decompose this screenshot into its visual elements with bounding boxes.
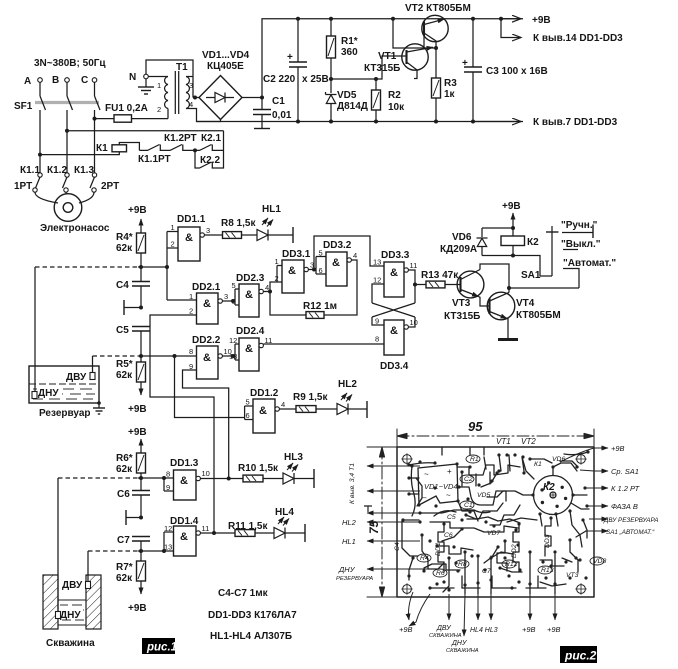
svg-text:VT3: VT3 [452, 298, 471, 309]
wire: bridge + output to C1 node [242, 97, 262, 99]
svg-text:х 25В: х 25В [302, 74, 329, 85]
board output arrows right side [560, 448, 608, 531]
svg-text:ДВУ: ДВУ [436, 625, 452, 632]
svg-text:13: 13 [164, 543, 172, 552]
svg-text:R2: R2 [388, 90, 401, 101]
terminal stub between C6/C7 [126, 510, 143, 525]
svg-text:&: & [245, 289, 253, 301]
figure 1 tag [142, 638, 177, 654]
svg-text:К 1.2 РТ: К 1.2 РТ [611, 484, 641, 493]
board outline [397, 447, 594, 597]
svg-text:СКВАЖИНА: СКВАЖИНА [446, 648, 479, 654]
svg-text:ДНУ: ДНУ [38, 388, 59, 399]
svg-text:DD1.2: DD1.2 [250, 388, 279, 399]
svg-text:С3 100 х 16В: С3 100 х 16В [486, 66, 548, 77]
svg-text:ДВУ РЕЗЕРВУАРА: ДВУ РЕЗЕРВУАРА [603, 517, 658, 524]
wire: fuse to T1 primary pin2 [167, 109, 169, 119]
wire DD2.4 out to DD3.4 pin8 [263, 343, 384, 345]
wire: N up over to bridge AC input [146, 60, 193, 98]
svg-text:0,01: 0,01 [272, 110, 292, 121]
wire node to DD1.2 inputs [175, 356, 245, 418]
wires from contacts to motor [35, 192, 58, 203]
reservoir tank [29, 366, 99, 403]
svg-text:С: С [81, 75, 88, 86]
node R6/C6 (DNU well net) [139, 476, 143, 480]
chassis stub below C1 [261, 122, 263, 129]
svg-text:R5*: R5* [116, 359, 133, 370]
svg-text:VD6: VD6 [452, 232, 472, 243]
svg-text:КТ315Б: КТ315Б [364, 63, 400, 74]
svg-text:А: А [24, 76, 31, 87]
svg-text:R12 1м: R12 1м [303, 301, 337, 312]
svg-text:КТ315Б: КТ315Б [444, 311, 480, 322]
svg-text:Скважина: Скважина [46, 638, 95, 649]
svg-text:VD5: VD5 [477, 492, 490, 499]
motor (electric pump) [54, 194, 82, 222]
DD2.4 input bracket from DD2.2 out [222, 344, 239, 360]
svg-text:ФАЗА В: ФАЗА В [611, 502, 638, 511]
svg-text:DD3.4: DD3.4 [380, 361, 409, 372]
svg-text:VT1: VT1 [378, 51, 397, 62]
svg-text:К2: К2 [527, 237, 539, 248]
dimension 75 [367, 447, 397, 597]
svg-text:ДНУ: ДНУ [60, 610, 81, 621]
svg-text:HL4: HL4 [275, 507, 294, 518]
mounting hole bottom-left [403, 585, 412, 594]
svg-text:4: 4 [281, 400, 285, 409]
svg-text:DD2: DD2 [511, 544, 518, 558]
svg-text:12: 12 [373, 276, 381, 285]
svg-text:R9 1,5к: R9 1,5к [293, 392, 328, 403]
relay K2 on board [534, 476, 573, 515]
svg-text:"Автомат.": "Автомат." [563, 258, 616, 269]
reservoir DNU electrode [32, 267, 37, 399]
svg-text:&: & [390, 267, 398, 279]
svg-text:&: & [203, 352, 211, 364]
svg-text:К выв.7 DD1-DD3: К выв.7 DD1-DD3 [533, 117, 618, 128]
svg-text:11: 11 [410, 261, 418, 270]
svg-text:HL3: HL3 [284, 452, 303, 463]
svg-text:SF1: SF1 [14, 101, 33, 112]
svg-text:10: 10 [202, 469, 210, 478]
core lines [174, 71, 176, 114]
wire DD2.2 pin9 to DD1.3 output [183, 370, 229, 479]
svg-text:1: 1 [171, 223, 175, 232]
svg-text:"Выкл.": "Выкл." [561, 239, 601, 250]
svg-text:C5: C5 [447, 514, 456, 521]
svg-text:~: ~ [424, 470, 429, 479]
reservoir DVU electrode [90, 356, 95, 380]
svg-text:РЕЗЕРВУАРА: РЕЗЕРВУАРА [336, 576, 373, 582]
svg-text:9: 9 [375, 317, 379, 326]
DD3.1 input bracket from DD2.3 out node [263, 266, 282, 292]
svg-text:2РТ: 2РТ [101, 181, 119, 192]
svg-text:DD2.1: DD2.1 [192, 282, 221, 293]
svg-text:К1: К1 [96, 143, 108, 154]
svg-text:–: – [422, 493, 427, 502]
wire: T1 pin3 stub [186, 76, 193, 78]
svg-text:8: 8 [375, 335, 379, 344]
svg-text:VT2: VT2 [521, 437, 536, 446]
wire VD6/K2 top [482, 227, 513, 229]
svg-text:R4: R4 [420, 555, 429, 562]
svg-text:+: + [447, 467, 452, 476]
svg-text:5: 5 [246, 398, 250, 407]
svg-text:R6: R6 [436, 570, 445, 577]
svg-text:SA1: SA1 [521, 270, 541, 281]
dashed wire to well DVU [88, 550, 138, 552]
svg-text:Электронасос: Электронасос [40, 223, 110, 234]
svg-text:рис.2: рис.2 [564, 649, 597, 663]
mounting hole bottom-right [577, 585, 586, 594]
svg-text:С1: С1 [272, 96, 285, 107]
svg-text:VD6: VD6 [552, 456, 565, 463]
svg-text:R10 1,5к: R10 1,5к [238, 463, 279, 474]
DD1.1 input bracket [167, 232, 197, 301]
dimension 95 [397, 429, 594, 447]
node R1/VD5 [329, 77, 333, 81]
svg-text:К1.2РТ: К1.2РТ [164, 133, 197, 144]
svg-text:10: 10 [410, 318, 418, 327]
svg-text:КД209А: КД209А [440, 244, 477, 255]
svg-text:10к: 10к [388, 102, 405, 113]
svg-text:R11 1,5к: R11 1,5к [228, 521, 268, 532]
svg-text:DD3.3: DD3.3 [381, 250, 410, 261]
svg-text:&: & [332, 257, 340, 269]
svg-text:К2: К2 [543, 482, 555, 493]
svg-text:C6: C6 [444, 532, 453, 539]
DD1.3 input bracket [164, 478, 174, 491]
svg-text:&: & [203, 298, 211, 310]
svg-text:HL1-HL4 АЛ307Б: HL1-HL4 АЛ307Б [210, 631, 292, 642]
svg-text:&: & [185, 232, 193, 244]
svg-text:62к: 62к [116, 243, 133, 254]
svg-text:К1.3: К1.3 [74, 165, 94, 176]
svg-text:13: 13 [373, 258, 381, 267]
svg-text:4: 4 [189, 100, 193, 109]
wire VD6/K2 bottom to SA1 pole [482, 256, 552, 277]
svg-text:1РТ: 1РТ [14, 181, 32, 192]
svg-text:8: 8 [189, 347, 193, 356]
svg-text:C7: C7 [482, 568, 491, 575]
wire: control line from phase B [67, 130, 224, 132]
node contacts to K2.1/K2.2 [193, 148, 197, 152]
svg-text:+9В: +9В [502, 201, 521, 212]
svg-text:VT1: VT1 [496, 437, 511, 446]
svg-text:&: & [259, 405, 267, 417]
svg-text:С4-С7 1мк: С4-С7 1мк [218, 588, 269, 599]
svg-text:62к: 62к [116, 370, 133, 381]
wire: positive rail riser [262, 19, 523, 98]
terminal stub between C4/C5 [124, 300, 143, 315]
svg-text:1: 1 [275, 257, 279, 266]
svg-text:КЦ405Е: КЦ405Е [207, 61, 244, 72]
DD2.3 input bracket from DD2.1 out [222, 289, 239, 305]
svg-text:DD1-DD3 К176ЛА7: DD1-DD3 К176ЛА7 [208, 610, 297, 621]
svg-text:DD2.3: DD2.3 [236, 273, 265, 284]
svg-text:1: 1 [157, 81, 161, 90]
svg-text:R1*: R1* [341, 36, 358, 47]
svg-text:VT2 КТ805БМ: VT2 КТ805БМ [405, 3, 471, 14]
wire automat to VT4 collector [509, 287, 579, 289]
svg-text:1: 1 [189, 292, 193, 301]
svg-text:DD3: DD3 [544, 534, 551, 548]
node C5/R5 (DVU reservoir net) [139, 354, 143, 358]
svg-text:+9В: +9В [532, 15, 551, 26]
svg-text:КТ805БМ: КТ805БМ [516, 310, 561, 321]
svg-text:+9В: +9В [128, 427, 147, 438]
svg-text:ДВУ: ДВУ [66, 372, 87, 383]
svg-text:DD2.2: DD2.2 [192, 335, 221, 346]
node C7/R7 (DVU well net) [139, 549, 143, 553]
svg-text:HL4 HL3: HL4 HL3 [470, 627, 498, 634]
node: phase C to fuse [93, 117, 97, 121]
svg-text:DD3.1: DD3.1 [282, 249, 311, 260]
svg-text:С5: С5 [116, 325, 129, 336]
svg-text:VD1...VD4: VD1...VD4 [202, 50, 250, 61]
svg-text:&: & [245, 343, 253, 355]
svg-text:Д814Д: Д814Д [337, 101, 368, 112]
svg-text:"Ручн.": "Ручн." [561, 220, 598, 231]
svg-text:VD1~VD4: VD1~VD4 [424, 482, 458, 491]
secondary winding [186, 77, 189, 109]
svg-text:HL1: HL1 [342, 537, 356, 546]
svg-text:VD8: VD8 [593, 558, 606, 565]
svg-text:&: & [180, 531, 188, 543]
svg-text:DD1.1: DD1.1 [177, 214, 206, 225]
svg-text:95: 95 [468, 419, 483, 434]
svg-text:К1.1РТ: К1.1РТ [138, 154, 171, 165]
svg-text:&: & [288, 265, 296, 277]
svg-text:+9В: +9В [611, 444, 625, 453]
svg-text:VT4: VT4 [516, 298, 535, 309]
svg-text:SA1 „АВТОМАТ.“: SA1 „АВТОМАТ.“ [606, 529, 655, 536]
svg-text:DD1: DD1 [435, 542, 442, 556]
svg-text:HL1: HL1 [262, 204, 281, 215]
svg-text:СКВАЖИНА: СКВАЖИНА [429, 633, 462, 639]
wire R5 node to DD2.2 pin8 [138, 355, 197, 357]
svg-text:+9В: +9В [128, 603, 147, 614]
bottom rail [197, 121, 524, 123]
wire: rail to VT2 base [391, 17, 438, 50]
svg-text:С4: С4 [116, 280, 129, 291]
svg-text:R8 1,5к: R8 1,5к [221, 218, 256, 229]
svg-text:VT3: VT3 [566, 572, 579, 579]
svg-text:+9В: +9В [128, 205, 147, 216]
svg-text:ДНУ: ДНУ [451, 640, 468, 647]
svg-text:К1: К1 [534, 461, 542, 468]
svg-text:+9В: +9В [128, 404, 147, 415]
mounting hole top-right [577, 455, 586, 464]
svg-text:К выв. 3,4 Т1: К выв. 3,4 Т1 [349, 463, 356, 504]
wire: base line to VT1 [331, 56, 407, 79]
svg-text:3N~380В; 50Гц: 3N~380В; 50Гц [34, 58, 106, 69]
svg-text:С6: С6 [117, 489, 130, 500]
svg-text:HL2: HL2 [338, 379, 357, 390]
node: bridge left AC input [193, 96, 197, 100]
dashed wire to well DNU [58, 477, 138, 479]
figure 2 tag [560, 646, 597, 663]
svg-text:R13 47к: R13 47к [421, 270, 459, 281]
svg-text:Ср. SA1: Ср. SA1 [611, 467, 639, 476]
svg-text:1к: 1к [444, 89, 456, 100]
ground under N [138, 79, 154, 94]
svg-text:R7*: R7* [116, 562, 133, 573]
svg-text:2: 2 [171, 240, 175, 249]
svg-text:FU1 0,2А: FU1 0,2А [105, 103, 148, 114]
svg-text:ДНУ: ДНУ [338, 565, 356, 574]
RS latch cross-coupling [372, 270, 415, 327]
svg-text:R6*: R6* [116, 453, 133, 464]
ground at reservoir [93, 401, 105, 414]
svg-text:C4: C4 [394, 542, 401, 551]
svg-text:11: 11 [202, 524, 210, 533]
svg-text:VD5: VD5 [337, 90, 357, 101]
svg-text:&: & [390, 325, 398, 337]
svg-text:&: & [180, 475, 188, 487]
svg-text:R3: R3 [444, 78, 457, 89]
svg-text:DD1.3: DD1.3 [170, 458, 199, 469]
well DVU electrode [86, 551, 91, 589]
wire DD2.1 pin2 long route to DD1.4 output [150, 315, 214, 533]
svg-text:N: N [129, 72, 136, 83]
svg-text:DD2.4: DD2.4 [236, 326, 265, 337]
svg-text:4: 4 [353, 251, 357, 260]
svg-text:HL2: HL2 [342, 518, 357, 527]
svg-text:3: 3 [206, 226, 210, 235]
svg-text:+9В: +9В [547, 625, 561, 634]
svg-text:62к: 62к [116, 464, 133, 475]
board pads [401, 450, 589, 591]
svg-text:Т1: Т1 [176, 62, 188, 73]
svg-text:К2.1: К2.1 [201, 133, 221, 144]
svg-text:В: В [52, 75, 59, 86]
svg-text:VD7: VD7 [487, 530, 500, 537]
svg-text:рис.1: рис.1 [146, 642, 177, 654]
board output arrows left side [364, 466, 430, 569]
wire: N to T1 primary pin1 [148, 76, 168, 78]
primary winding [165, 77, 168, 109]
svg-text:~: ~ [446, 491, 451, 500]
svg-text:+9В: +9В [522, 625, 536, 634]
board output arrows bottom [409, 592, 556, 636]
node: phase B to control line [65, 129, 69, 133]
svg-text:+9В: +9В [399, 625, 413, 634]
node R4/C4 (DNU reservoir net) [139, 265, 143, 269]
svg-text:3: 3 [224, 292, 228, 301]
svg-text:2: 2 [157, 105, 161, 114]
ground below VT4 [498, 338, 518, 341]
svg-text:3: 3 [189, 81, 193, 90]
svg-text:К2.2: К2.2 [200, 155, 220, 166]
dashed wire to reservoir DNU [35, 266, 138, 268]
svg-text:6: 6 [246, 411, 250, 420]
svg-text:R8: R8 [458, 561, 467, 568]
rectifier module VD1-VD4 on board [418, 464, 458, 505]
svg-text:ДВУ: ДВУ [62, 580, 83, 591]
well DNU electrode [56, 478, 61, 619]
wire node up to DD3.3 pin13 [314, 236, 384, 270]
dashed wire to reservoir DVU [93, 355, 139, 357]
mounting hole top-left [403, 455, 412, 464]
svg-text:R4*: R4* [116, 232, 133, 243]
svg-text:С2 220: С2 220 [263, 74, 296, 85]
wire: T1 pin4 to bridge AC bottom [186, 109, 221, 122]
node K1 coil to phase A [38, 153, 42, 157]
svg-text:С7: С7 [117, 535, 130, 546]
svg-text:Резервуар: Резервуар [39, 408, 91, 419]
svg-text:DD3.2: DD3.2 [323, 240, 352, 251]
svg-text:62к: 62к [116, 573, 133, 584]
DD1.4 input bracket [164, 532, 174, 551]
DD1.2 input bracket [245, 406, 253, 420]
svg-text:2: 2 [189, 307, 193, 316]
svg-text:8: 8 [166, 470, 170, 479]
board copper traces [402, 447, 589, 594]
svg-text:360: 360 [341, 47, 358, 58]
DD3.2 input bracket from DD3.1 out [308, 257, 326, 275]
svg-text:К выв.14 DD1-DD3: К выв.14 DD1-DD3 [533, 33, 623, 44]
